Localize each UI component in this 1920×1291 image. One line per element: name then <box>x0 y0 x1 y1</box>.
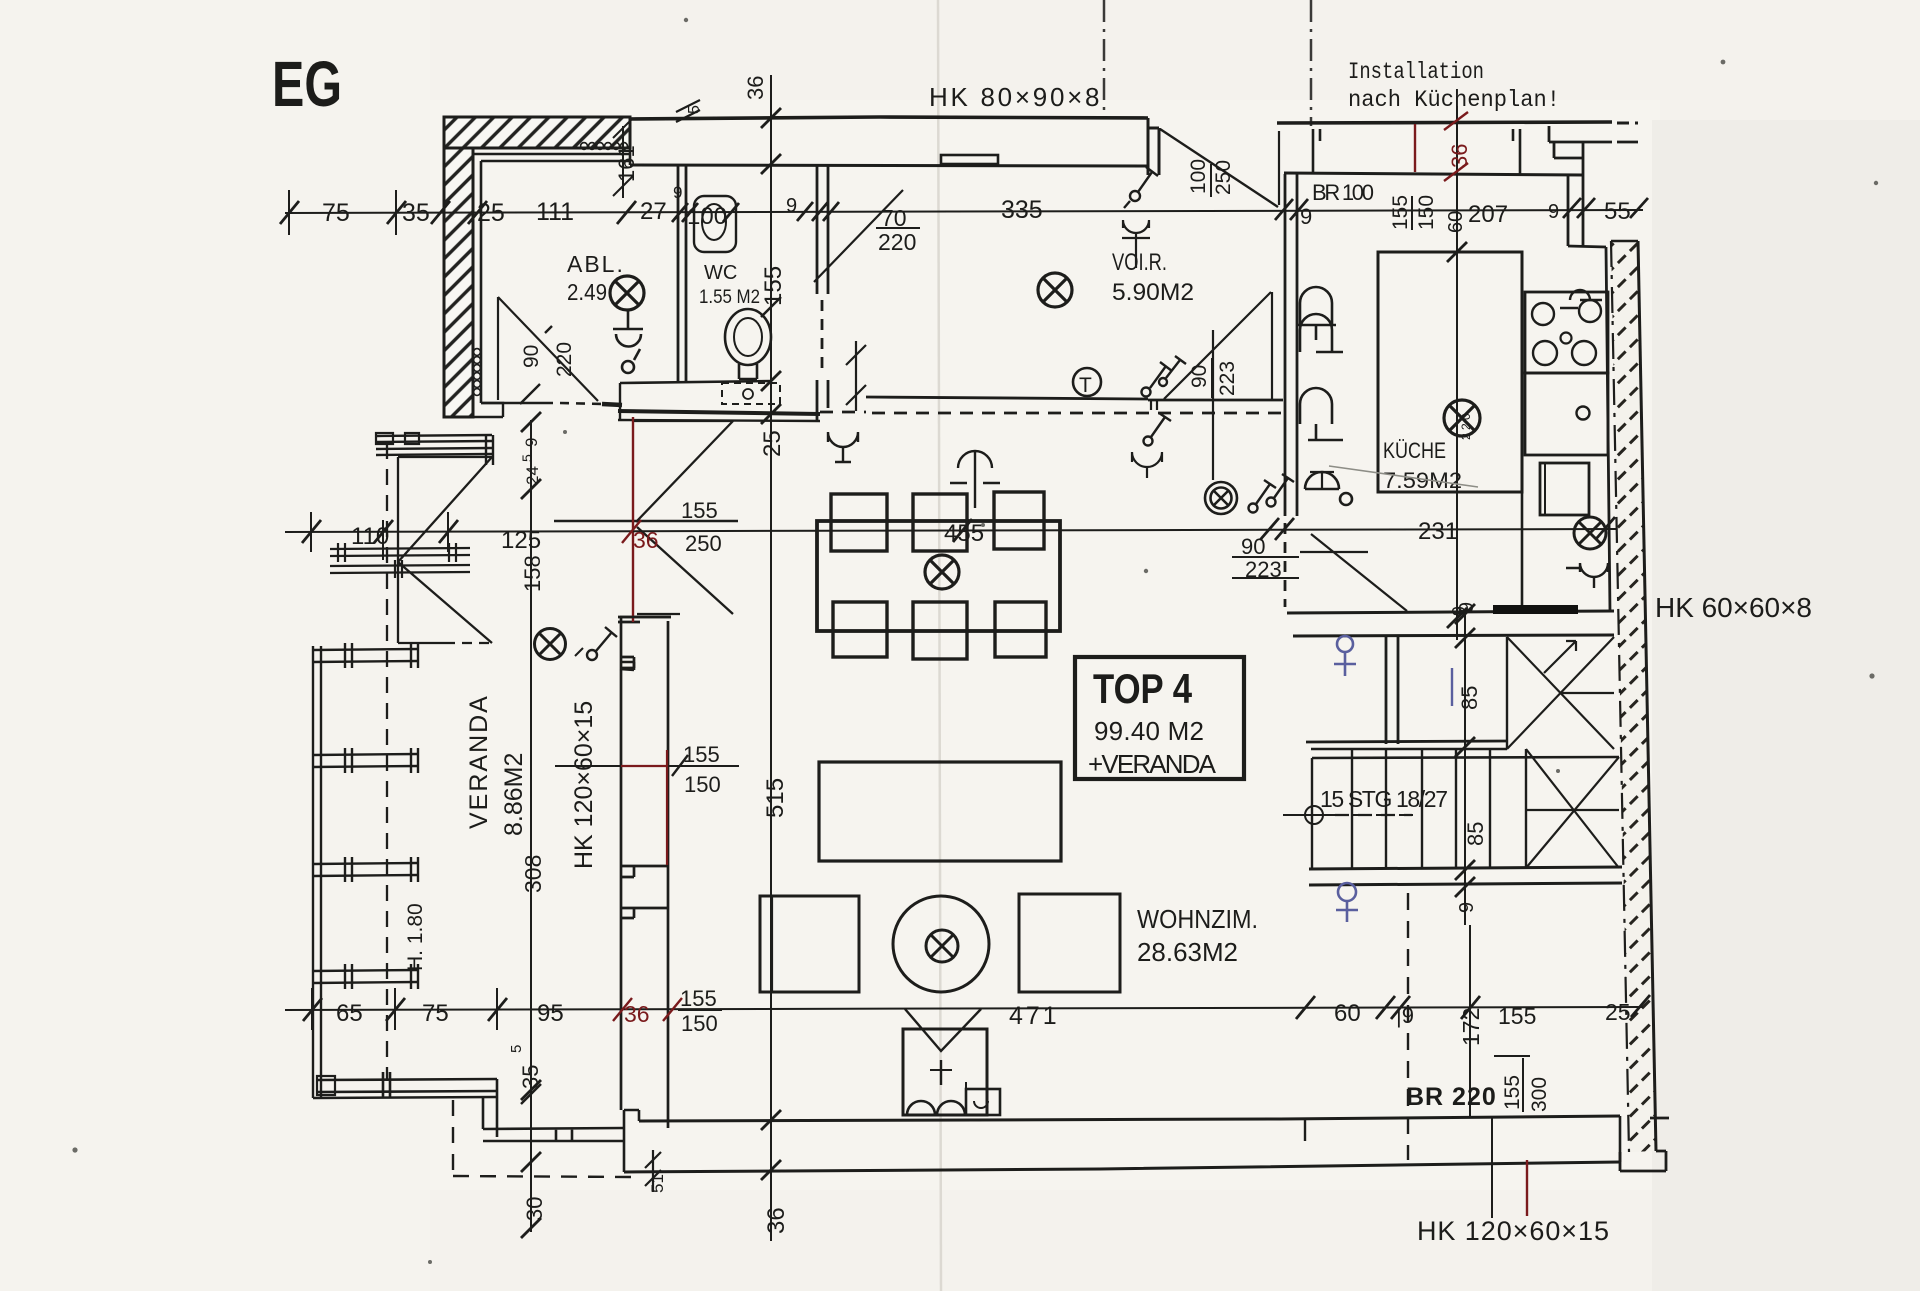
ticks on middle dimension chain <box>302 517 1615 543</box>
landing partition line <box>1506 637 1508 749</box>
svg-text:5: 5 <box>686 105 703 114</box>
svg-text:30: 30 <box>522 1197 547 1221</box>
svg-text:220: 220 <box>878 229 916 255</box>
corridor-VOR boundary thin line <box>866 397 1283 400</box>
thermostat T circle <box>1073 368 1101 396</box>
extension verticals bottom chain <box>312 988 497 1030</box>
svg-text:9: 9 <box>1456 902 1478 913</box>
svg-text:WOHNZIM.: WOHNZIM. <box>1137 904 1258 934</box>
winder arrow small diagonal <box>1544 641 1576 673</box>
svg-text:25: 25 <box>1605 999 1631 1025</box>
landing winder diagonals upper <box>1507 0 1795 749</box>
svg-text:90: 90 <box>1188 365 1211 388</box>
svg-text:150: 150 <box>1415 195 1438 230</box>
svg-text:T: T <box>1079 374 1092 397</box>
tick at 155/150 mid <box>672 755 688 776</box>
paper fold line vertical <box>938 0 941 1291</box>
kitchen appliance square <box>1540 463 1589 515</box>
svg-text:155: 155 <box>760 266 787 306</box>
ticks on bottom dimension chain <box>303 995 1650 1021</box>
insulation bead dots top band <box>581 143 628 150</box>
dimension chain line middle (y=531) <box>285 529 1616 532</box>
kitchen stove block <box>1525 292 1608 373</box>
red jamb line at bottom wall x=1527 <box>1526 1160 1528 1216</box>
stairs hall door leaf (under kitchen) <box>1300 534 1407 611</box>
ticks on x=1457 vertical <box>1447 242 1467 628</box>
svg-text:36: 36 <box>763 1207 790 1234</box>
svg-text:158: 158 <box>520 555 545 592</box>
kitchen tall counter <box>1378 252 1522 492</box>
veranda railing row 2 <box>313 748 418 773</box>
stair walk line dashes vertical <box>1335 814 1412 816</box>
round coffee table <box>893 896 989 992</box>
kitchen top wall right corner step <box>1549 126 1638 142</box>
ticks on top dimension chain <box>280 198 1648 224</box>
dash-dot axis line kitchen <box>1310 0 1313 126</box>
socket below VOR switches <box>1132 413 1171 478</box>
double-circle lamp corridor <box>1205 482 1237 514</box>
stove burner top-left <box>1532 303 1554 325</box>
svg-text:85: 85 <box>1463 822 1488 846</box>
svg-text:9: 9 <box>1300 204 1312 229</box>
hatched exterior wall top-left horizontal band <box>444 117 630 148</box>
svg-text:70: 70 <box>881 205 907 231</box>
svg-text:85: 85 <box>1457 686 1482 710</box>
svg-text:60: 60 <box>1334 1000 1361 1027</box>
small wc room bottom line <box>1306 741 1507 742</box>
fraction 155/150 bar (left, y1009) <box>678 1009 722 1011</box>
insulation bead dots left band <box>474 349 481 396</box>
svg-text:25: 25 <box>759 430 786 457</box>
veranda dashed boundary line <box>386 443 388 1081</box>
tick at 35,5 on x=531 <box>521 1084 541 1104</box>
svg-text:36: 36 <box>624 1001 650 1027</box>
svg-text:65: 65 <box>336 1000 363 1027</box>
svg-text:Installation: Installation <box>1348 59 1484 85</box>
vertical dimension line x=1457 kitchen <box>1456 106 1458 640</box>
fraction 155/300 rotated bars (BR220) <box>1494 1056 1530 1112</box>
bottom wall right end verticals <box>1619 1116 1622 1162</box>
ticks on stairs dim <box>1455 604 1475 897</box>
svg-text:55: 55 <box>1604 198 1631 225</box>
paper interior lighter area <box>430 100 1660 1190</box>
fraction 155/150 bar (mid, y781) <box>668 765 739 767</box>
svg-text:36: 36 <box>743 76 768 100</box>
veranda left railing vertical double line <box>313 646 321 1098</box>
dining chair bottom-left <box>833 602 887 657</box>
stove small knob circle <box>1561 333 1572 344</box>
top wall left end vertical <box>629 148 632 165</box>
svg-text:155: 155 <box>680 986 717 1011</box>
svg-text:100: 100 <box>687 203 727 230</box>
svg-text:515: 515 <box>762 778 789 818</box>
dim line stub at 155/150 mid <box>555 765 621 767</box>
VOR door swing lower triangle (90/223) <box>1278 131 1280 205</box>
vertical dimension line x=771 full height <box>770 75 772 1241</box>
svg-text:HK 80×90×8: HK 80×90×8 <box>929 82 1101 112</box>
wash basin dashed (in niche) <box>722 383 780 404</box>
svg-text:223: 223 <box>1216 361 1239 396</box>
stove burner bottom-left <box>1533 341 1557 365</box>
right wall bottom termination step <box>1620 1118 1669 1171</box>
hatched exterior wall top-left vertical band <box>444 148 473 417</box>
stove burner bottom-right <box>1572 341 1596 365</box>
svg-text:8.86M2: 8.86M2 <box>500 753 528 836</box>
switch at veranda door <box>575 627 617 660</box>
fraction 100/250 rotated bar (VOR entry door) <box>1210 164 1212 197</box>
living room sideboard <box>819 762 1061 861</box>
svg-text:125: 125 <box>501 527 541 554</box>
veranda bottom wall band to living room <box>483 1128 624 1141</box>
stairs: hallway top wall line <box>1287 611 1614 613</box>
dining table <box>817 521 1060 631</box>
svg-text:150: 150 <box>681 1011 718 1036</box>
svg-text:51: 51 <box>648 1174 667 1193</box>
ABL door leaf and jamb <box>498 297 598 401</box>
svg-text:27: 27 <box>640 198 667 225</box>
svg-text:H. 1.80: H. 1.80 <box>404 903 427 971</box>
svg-text:75: 75 <box>322 199 350 227</box>
svg-text:155: 155 <box>1389 195 1412 230</box>
svg-text:VOI.R.: VOI.R. <box>1112 249 1167 276</box>
svg-text:TOP 4: TOP 4 <box>1093 665 1193 712</box>
svg-text:EG: EG <box>272 48 342 120</box>
top wall outer line above WC/VOR <box>630 117 1148 119</box>
vertical extension ticks at top chain ends <box>289 190 396 235</box>
ticks on x=771 vertical <box>761 108 781 1180</box>
svg-text:155: 155 <box>683 742 720 767</box>
svg-text:455: 455 <box>944 520 984 547</box>
WC toilet inner ring <box>702 204 726 240</box>
kitchen coat hook upper pair <box>1297 287 1343 352</box>
vertical dim line WC x=771 label ticks at 155 area <box>761 297 781 317</box>
red ticks on bottom chain at 36 <box>613 998 682 1021</box>
svg-text:36: 36 <box>1447 144 1472 168</box>
svg-text:35: 35 <box>402 199 430 227</box>
svg-text:BR 220: BR 220 <box>1406 1083 1497 1111</box>
ticks on x=531 vertical <box>521 412 541 1238</box>
veranda railing row 4 <box>313 964 418 989</box>
corridor wall band: lower edge second line <box>618 420 820 421</box>
ceiling lamp veranda door <box>535 629 566 660</box>
kitchen jamb right of niche <box>1513 129 1520 174</box>
kitchen counter right edge extension <box>1521 492 1524 609</box>
stair center line with circle <box>1283 806 1420 824</box>
veranda door leaf upper triangle <box>398 457 492 562</box>
ceiling lamp dining <box>925 555 959 589</box>
vertical dimension line x=531 <box>530 420 532 1232</box>
pull switch below ABL lamp <box>613 311 643 373</box>
living room bottom wall bottom line <box>624 1162 1620 1172</box>
svg-text:250: 250 <box>1212 160 1235 195</box>
top wall inner line above WC/VOR <box>630 165 1148 166</box>
wall between WC and VOR (with dashed opening) <box>817 166 828 420</box>
kitchen top wall outer line <box>1277 122 1612 123</box>
svg-text:9: 9 <box>522 438 541 447</box>
svg-text:HK 60×60×8: HK 60×60×8 <box>1655 592 1813 623</box>
corridor door handle symbol <box>1305 472 1352 505</box>
kitchen right wall upper step <box>1554 143 1583 246</box>
dashed overhang below veranda (horizontal) <box>453 1176 633 1177</box>
living room west wall (double) <box>618 617 671 1128</box>
paper right margin band <box>1652 120 1920 1291</box>
dining chair top-middle <box>913 494 967 551</box>
kitchen sink cabinet <box>1525 373 1608 455</box>
corridor lower wall segment left of 155/250 door <box>554 520 738 523</box>
ceiling lamp kitchen <box>1444 400 1480 436</box>
svg-text:90: 90 <box>520 345 543 368</box>
stair landing start line <box>1311 748 1507 751</box>
extension verticals middle chain <box>311 512 448 560</box>
svg-text:5.90M2: 5.90M2 <box>1112 279 1194 306</box>
svg-text:15 STG 18/27: 15 STG 18/27 <box>1320 786 1448 812</box>
svg-text:HK 120×60×15: HK 120×60×15 <box>1417 1216 1610 1246</box>
veranda top rail (double line with posts) <box>376 433 493 465</box>
corridor wall band: thick lower line <box>618 411 820 414</box>
kitchen door swing into corridor (90/223) <box>1164 292 1272 480</box>
svg-text:ABL.: ABL. <box>567 251 625 277</box>
svg-text:100: 100 <box>1187 159 1210 194</box>
kitchen sink tap symbol <box>1560 290 1602 322</box>
svg-text:300: 300 <box>1528 1077 1551 1112</box>
veranda railing row 1 <box>313 643 418 668</box>
ceiling lamp kitchen right wall <box>1574 517 1606 549</box>
ceiling lamp ABL <box>610 276 644 310</box>
svg-text:9: 9 <box>786 195 797 217</box>
blue small tick in wc <box>1451 668 1453 706</box>
svg-text:335: 335 <box>1001 196 1043 224</box>
blue pen mark upper (near stairs wc) <box>1334 636 1356 676</box>
svg-text:28.63M2: 28.63M2 <box>1137 937 1238 967</box>
veranda railing row 3 <box>313 857 418 882</box>
kitchen right wall to hatch <box>1568 246 1610 612</box>
bottom wall inner tick x1305 <box>1304 1119 1306 1141</box>
door 155/250 upper leaf triangle <box>634 421 733 522</box>
vertical dim x=1470 lower right <box>1469 925 1471 1118</box>
dimension chain line bottom (y=1009) <box>285 1007 1643 1010</box>
fraction 90/223 bar (kitchen door) <box>1232 556 1299 558</box>
dash-dot axis line top <box>1103 0 1106 118</box>
veranda door leaf lower triangle <box>398 562 492 643</box>
veranda bottom-left wall band <box>313 1072 497 1098</box>
inner wall lines of ABL room (top and left) <box>445 154 629 417</box>
VOR top-right wall corner double line <box>1148 118 1159 175</box>
red jamb line lower veranda door <box>666 750 668 865</box>
TOP4 label box <box>1075 657 1244 779</box>
vertical dim x=1492 bottom <box>1491 1117 1493 1218</box>
TV cabinet <box>903 1009 987 1115</box>
antenna outlet corridor <box>950 451 1000 508</box>
door leaf VOR entrance (swing diagonal) <box>1160 129 1278 207</box>
living room bottom wall notch left <box>624 1110 639 1172</box>
radiator HK 80x90x8 marker <box>941 155 998 164</box>
ceiling lamp VOR <box>1038 273 1072 307</box>
svg-text:BR 100: BR 100 <box>1312 180 1374 205</box>
dim 161 extension line x=588 (wall niche) <box>613 118 633 198</box>
sink drain circle <box>1577 407 1590 420</box>
svg-text:60: 60 <box>1445 211 1467 233</box>
fraction 90/223 rotated bar (VOR door) <box>1211 358 1213 398</box>
stair winder diagonals lower <box>1526 749 1619 868</box>
faint pen smudge line kitchen <box>1329 466 1478 487</box>
dim 46 tick (corridor) <box>846 341 866 411</box>
svg-text:155: 155 <box>681 498 718 523</box>
tick +5 at top wall x=690 <box>676 100 700 122</box>
svg-text:35: 35 <box>518 1065 543 1089</box>
svg-text:9: 9 <box>673 183 682 202</box>
svg-text:172: 172 <box>1458 1008 1484 1046</box>
stairs dim vertical x=1465 <box>1464 613 1466 925</box>
wall between ABL and WC <box>678 166 686 381</box>
TV small device box <box>966 1082 1000 1115</box>
radiator HK60 black bar <box>1493 605 1578 614</box>
stair treads <box>1312 749 1619 868</box>
door leaf WC (70/220 swing diagonal) <box>814 190 903 282</box>
kitchen coat hook lower <box>1300 388 1343 440</box>
svg-text:WC: WC <box>704 262 737 284</box>
svg-text:2.49: 2.49 <box>567 279 607 305</box>
fraction 155/250 bar (veranda-living door) <box>679 520 738 522</box>
dining chair bottom-middle <box>913 602 967 659</box>
svg-text:155: 155 <box>1498 1003 1536 1029</box>
red niche dimension 36 (kitchen top) <box>1415 112 1468 181</box>
wall stub below hatch (445-503,403-417) <box>445 403 503 417</box>
svg-text:nach Küchenplan!: nach Küchenplan! <box>1348 87 1560 113</box>
armchair left <box>760 896 859 992</box>
svg-text:161: 161 <box>614 145 639 182</box>
svg-text:5: 5 <box>519 454 535 462</box>
switch pair near kitchen door <box>1249 474 1295 513</box>
dining chair top-left <box>831 494 887 551</box>
veranda bottom step wall down <box>483 1079 497 1137</box>
fraction 155/150 bar top right niche <box>1411 196 1413 230</box>
svg-text:471: 471 <box>1009 1002 1060 1030</box>
stair bottom wall double <box>1309 867 1622 885</box>
dining chair bottom-right <box>995 602 1046 657</box>
armchair right <box>1019 894 1120 992</box>
svg-text:1.55 M2: 1.55 M2 <box>699 287 760 308</box>
svg-text:308: 308 <box>520 855 546 893</box>
svg-text:2 2 0: 2 2 0 <box>1459 413 1473 440</box>
svg-text:9: 9 <box>1548 201 1559 223</box>
svg-text:150: 150 <box>684 772 721 797</box>
svg-text:HK 120×60×15: HK 120×60×15 <box>570 701 598 869</box>
extension line under 90/223 (kitchen door) <box>1232 577 1299 579</box>
door 155/250 red jamb line <box>632 417 634 622</box>
svg-text:75: 75 <box>422 1000 449 1027</box>
svg-text:25: 25 <box>477 199 505 227</box>
veranda upper rail pair 2 <box>330 560 470 578</box>
WC toilet bowl <box>725 309 771 379</box>
TV cabinet speakers arcs <box>830 0 965 1115</box>
veranda door lower dashed sill <box>445 642 492 644</box>
svg-text:155: 155 <box>1501 1075 1524 1110</box>
socket on corridor wall x=843 <box>828 432 858 462</box>
svg-text:110: 110 <box>351 523 389 550</box>
ceiling lamp living room (in round table) <box>926 930 958 962</box>
blue pen mark lower (near stairs bottom) <box>1336 883 1358 922</box>
dining chair top-right <box>994 492 1044 549</box>
small dim 51 bottom left <box>645 1150 661 1192</box>
svg-text:36: 36 <box>633 527 659 553</box>
svg-text:KÜCHE: KÜCHE <box>1383 438 1446 463</box>
socket below right lamp <box>1566 563 1608 588</box>
wash basin drain circle <box>743 389 753 399</box>
veranda upper rail pair 1 <box>330 543 470 562</box>
svg-text:5: 5 <box>508 1045 525 1053</box>
svg-text:+VERANDA: +VERANDA <box>1088 749 1217 779</box>
door 155/250 lower leaf triangle <box>637 527 733 614</box>
wall between corridor and kitchen (x~1285) <box>1285 174 1297 607</box>
ABL bottom wall line with dashed part <box>481 383 622 421</box>
tick pair at end of corridor wall line <box>1151 401 1157 410</box>
red dim crossing west wall <box>621 765 668 767</box>
corridor wall dashed door opening <box>820 412 1283 413</box>
red tick and marks on middle chain at x=633 <box>622 520 641 543</box>
svg-text:|9: |9 <box>1396 1003 1414 1028</box>
dimension chain line top (y=212) <box>285 210 1643 213</box>
svg-text:250: 250 <box>685 531 722 556</box>
fraction 70/220 bar <box>876 227 920 229</box>
svg-text:24: 24 <box>523 466 542 485</box>
kitchen top wall inner line <box>1284 173 1583 175</box>
svg-text:111: 111 <box>536 198 574 226</box>
svg-text:7.59M2: 7.59M2 <box>1383 468 1462 493</box>
svg-text:99.40 M2: 99.40 M2 <box>1094 716 1204 746</box>
svg-text:207: 207 <box>1468 201 1508 228</box>
corridor wall band below ABL/WC: top line <box>620 381 772 383</box>
svg-text:220: 220 <box>553 342 576 377</box>
svg-text:223: 223 <box>1245 557 1282 582</box>
paper left margin <box>0 0 430 1291</box>
svg-text:95: 95 <box>537 1000 564 1027</box>
svg-text:90: 90 <box>1241 534 1265 559</box>
wall stub right of 155/250 door <box>620 617 671 670</box>
small wc partition wall vertical <box>1386 636 1398 744</box>
dashed door line bottom right x=1408 <box>1407 893 1409 1160</box>
kitchen jamb left of niche <box>1313 129 1320 173</box>
WC toilet cistern <box>694 196 736 252</box>
svg-text:VERANDA: VERANDA <box>465 694 493 829</box>
door dim ticks 90/220 at ABL <box>520 326 552 404</box>
svg-text:231: 231 <box>1418 518 1458 545</box>
switch pair right of VOR <box>1142 356 1187 397</box>
switch symbol top VOR <box>1122 167 1158 268</box>
hatched exterior wall right band <box>1611 241 1656 1152</box>
dashed overhang below veranda (vertical) <box>452 1100 454 1176</box>
living room bottom wall top line <box>639 1116 1620 1121</box>
svg-text:9: 9 <box>1456 602 1478 613</box>
stairs: hallway lower wall line <box>1293 635 1614 636</box>
